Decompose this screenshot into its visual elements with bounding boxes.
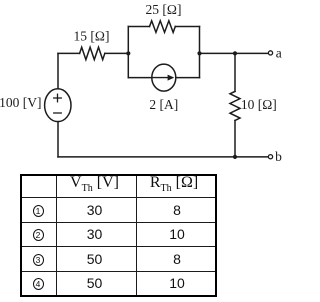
- resistor R 10 ohm vertical: [230, 91, 240, 120]
- junction dot right of parallel: [197, 51, 201, 55]
- svg-text:10 [Ω]: 10 [Ω]: [241, 97, 277, 112]
- wire top branch right: [175, 26, 199, 28]
- svg-text:100 [V]: 100 [V]: [0, 95, 41, 110]
- svg-text:b: b: [275, 149, 282, 164]
- wire top branch left: [128, 26, 149, 28]
- table header row: [21, 175, 216, 296]
- wire main to terminal a: [200, 52, 269, 54]
- wire 10 ohm branch top: [234, 53, 236, 91]
- row 1: [21, 197, 216, 222]
- wire parallel box right vertical: [199, 27, 201, 78]
- wire voltage source top: [57, 53, 59, 88]
- wire bottom branch left: [128, 77, 152, 79]
- junction dot left of parallel: [126, 51, 130, 55]
- svg-text:25 [Ω]: 25 [Ω]: [146, 2, 182, 17]
- voltage source V1 circle: [45, 89, 71, 122]
- junction dot bottom of 10 ohm: [233, 155, 237, 159]
- junction dot top of 10 ohm: [233, 51, 237, 55]
- wire to left junction: [105, 52, 129, 54]
- svg-text:2 [A]: 2 [A]: [149, 97, 178, 112]
- svg-text:15 [Ω]: 15 [Ω]: [74, 29, 110, 44]
- row 4: [21, 271, 216, 296]
- terminal b circle: [268, 155, 272, 159]
- wire bottom branch right: [176, 77, 200, 79]
- plus sign: [54, 97, 62, 99]
- wire bottom: [58, 156, 268, 158]
- table of answer choices: [20, 174, 217, 297]
- wire voltage source bottom: [57, 122, 59, 157]
- svg-text:a: a: [276, 46, 282, 61]
- wire top-left horizontal: [58, 52, 80, 54]
- wire parallel box left vertical: [127, 27, 129, 78]
- row 2: [21, 222, 216, 246]
- current source arrow line: [152, 77, 169, 79]
- resistor R 25 ohm: [150, 21, 176, 33]
- wire 10 ohm branch bottom: [234, 121, 236, 157]
- current source I1 2A circle: [152, 64, 176, 91]
- current source arrowhead: [168, 75, 175, 81]
- resistor R 15 ohm: [80, 47, 105, 59]
- minus sign: [54, 112, 62, 114]
- row 3: [21, 246, 216, 271]
- terminal a circle: [268, 51, 272, 55]
